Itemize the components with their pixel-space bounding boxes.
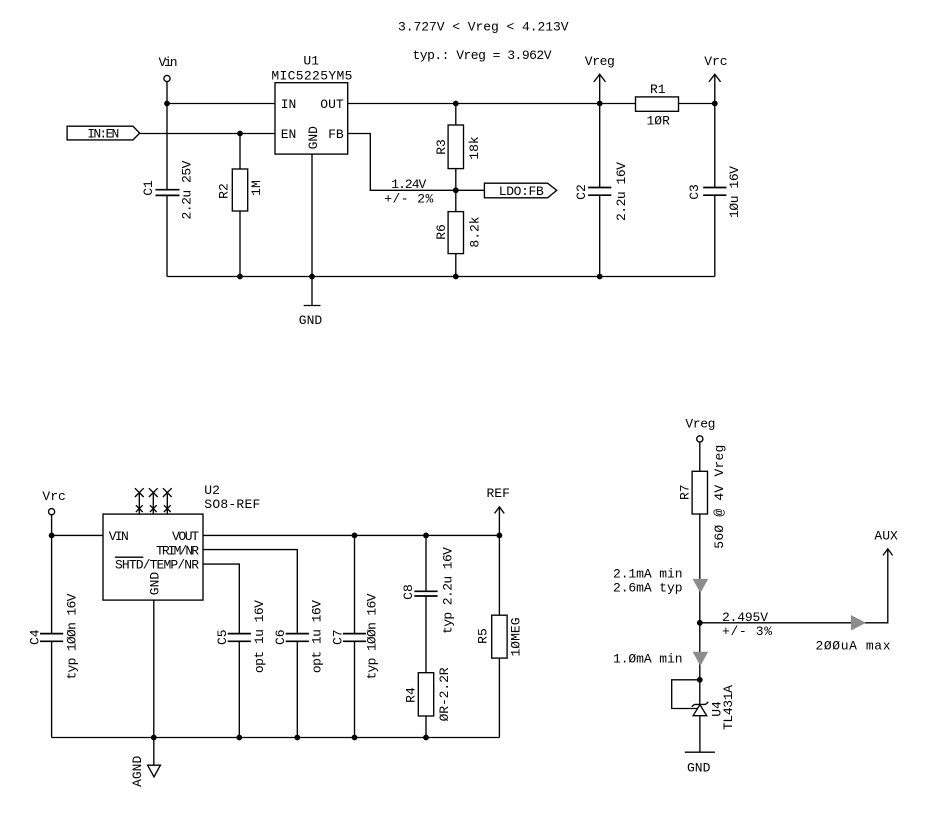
svg-text:Vin: Vin xyxy=(159,55,178,70)
svg-text:VOUT: VOUT xyxy=(172,529,199,544)
capacitor C7 xyxy=(330,593,379,679)
junction Vrc/C3 xyxy=(712,101,718,107)
svg-text:2.6mA typ: 2.6mA typ xyxy=(613,581,683,596)
svg-text:2.2u 25V: 2.2u 25V xyxy=(180,160,195,219)
op-amp U1 MIC5225YM5 xyxy=(271,53,352,154)
svg-text:R3: R3 xyxy=(434,139,449,155)
wire ground rail top section xyxy=(167,276,715,278)
svg-text:1.ØmA min: 1.ØmA min xyxy=(613,652,683,667)
svg-text:GND: GND xyxy=(687,761,711,776)
svg-text:U2: U2 xyxy=(204,483,220,498)
svg-text:opt 1u 16V: opt 1u 16V xyxy=(252,600,267,673)
svg-text:VIN: VIN xyxy=(109,529,129,544)
wire Vrc down to C4 xyxy=(51,535,53,633)
wire C6 to rail xyxy=(296,641,298,737)
svg-text:SO8-REF: SO8-REF xyxy=(204,497,260,512)
svg-text:18k: 18k xyxy=(467,136,482,160)
svg-text:56Ø @ 4V Vreg: 56Ø @ 4V Vreg xyxy=(712,445,727,549)
wire FB to divider xyxy=(348,134,456,191)
wire R3 top xyxy=(455,104,457,126)
current arrow right xyxy=(851,615,866,630)
wire C5 to rail xyxy=(238,641,240,737)
junction Vin node xyxy=(164,101,170,107)
svg-text:TRIM/NR: TRIM/NR xyxy=(156,543,199,558)
svg-text:C5: C5 xyxy=(215,629,230,645)
resistor R2 xyxy=(217,169,265,211)
wire VOUT net xyxy=(203,534,499,536)
svg-text:C7: C7 xyxy=(330,629,345,645)
node Vrc arrow xyxy=(704,54,727,104)
wire TL431 anode to GND xyxy=(699,716,701,753)
svg-text:LDO:FB: LDO:FB xyxy=(499,184,544,199)
wire C2 to rail xyxy=(599,195,601,276)
wire R7 to node xyxy=(699,514,701,623)
svg-text:C3: C3 xyxy=(687,184,702,200)
svg-text:IN: IN xyxy=(281,97,297,112)
svg-text:typ 1ØØn 16V: typ 1ØØn 16V xyxy=(65,593,80,679)
node AUX arrow xyxy=(874,528,898,555)
wire TL431 feedback loop xyxy=(672,680,700,709)
svg-text:8.2k: 8.2k xyxy=(467,216,482,247)
wire Vreg stem xyxy=(699,442,701,471)
wire R4 to rail xyxy=(425,716,427,738)
svg-text:OUT: OUT xyxy=(320,97,344,112)
wire C1 to rail xyxy=(166,195,168,276)
svg-text:R2: R2 xyxy=(217,183,232,199)
wire C3 to rail xyxy=(714,195,716,276)
junction OUT/R3 xyxy=(453,101,459,107)
svg-text:REF: REF xyxy=(487,486,510,501)
wire U2 GND stem xyxy=(153,600,155,737)
junction VOUT/C8 xyxy=(423,533,429,539)
junction FB node xyxy=(453,187,459,193)
wire Vreg down to C2 xyxy=(599,104,601,188)
wire SHTD to C5 xyxy=(203,564,239,634)
junction R6 rail xyxy=(453,274,459,280)
junction VOUT/R5 xyxy=(497,533,503,539)
svg-text:2ØØuA max: 2ØØuA max xyxy=(816,639,891,654)
junction TL431 ref xyxy=(697,677,703,683)
svg-text:ØR-2.2R: ØR-2.2R xyxy=(437,667,452,721)
junction R4 rail xyxy=(423,735,429,741)
svg-text:C1: C1 xyxy=(141,180,156,196)
svg-text:Vreg: Vreg xyxy=(685,416,715,431)
junction Vrc/VIN xyxy=(49,533,55,539)
junction VOUT/C7 xyxy=(352,533,358,539)
wire R6 bottom xyxy=(455,254,457,277)
svg-text:Vrc: Vrc xyxy=(42,489,65,504)
node Vin terminal xyxy=(164,75,170,81)
wire Vin down to C1 xyxy=(166,104,168,190)
op-amp U2 SO8-REF xyxy=(103,483,260,600)
current arrow down 2 xyxy=(693,652,709,666)
tag IN:EN xyxy=(67,126,140,141)
svg-text:1ØMEG: 1ØMEG xyxy=(509,617,524,656)
svg-text:C6: C6 xyxy=(273,629,288,645)
svg-text:1ØR: 1ØR xyxy=(646,114,670,129)
wire R2 bottom xyxy=(239,211,241,277)
svg-text:AUX: AUX xyxy=(874,528,898,543)
wire TRIM/NR to C6 xyxy=(203,550,297,634)
wire R5 top xyxy=(498,535,500,615)
capacitor C4 xyxy=(28,593,80,679)
svg-text:R1: R1 xyxy=(650,82,666,97)
svg-text:R4: R4 xyxy=(403,687,418,703)
svg-text:Vreg: Vreg xyxy=(585,54,615,69)
svg-text:TL431A: TL431A xyxy=(721,685,736,730)
junction C6 rail xyxy=(294,735,300,741)
resistor R4 xyxy=(403,667,452,721)
junction R2 rail xyxy=(237,274,243,280)
capacitor C8 xyxy=(401,547,456,634)
junction C5 rail xyxy=(236,735,242,741)
wire OUT net xyxy=(348,103,715,105)
svg-text:1M: 1M xyxy=(249,180,264,196)
svg-text:2.1mA min: 2.1mA min xyxy=(613,567,683,582)
svg-text:C4: C4 xyxy=(28,629,43,645)
node Vrc terminal xyxy=(49,509,55,515)
node Vreg arrow xyxy=(585,54,615,104)
svg-text:Vrc: Vrc xyxy=(704,54,727,69)
svg-text:EN: EN xyxy=(281,127,297,142)
junction U1 GND at rail xyxy=(309,274,315,280)
svg-text:GND: GND xyxy=(147,572,162,596)
svg-text:C2: C2 xyxy=(574,184,589,200)
wire C8 top xyxy=(425,535,427,591)
svg-text:R5: R5 xyxy=(475,628,490,644)
wire R2 top xyxy=(239,134,241,170)
wire VIN xyxy=(52,534,103,536)
svg-text:GND: GND xyxy=(306,126,321,150)
capacitor C1 xyxy=(141,160,194,219)
wire Vin stem xyxy=(166,82,168,104)
tag LDO:FB xyxy=(456,183,557,199)
svg-text:1Øu 16V: 1Øu 16V xyxy=(727,166,742,218)
capacitor C5 xyxy=(215,600,267,673)
svg-text:C8: C8 xyxy=(401,584,416,600)
svg-text:R6: R6 xyxy=(434,224,449,240)
wire Vrc down to C3 xyxy=(714,104,716,188)
svg-text:2.2u 16V: 2.2u 16V xyxy=(614,162,629,221)
capacitor C6 xyxy=(273,600,324,673)
resistor R7 xyxy=(678,445,727,549)
wire Vin to U1 IN xyxy=(167,103,275,105)
wire R3 bottom xyxy=(455,169,457,191)
junction EN/R2 xyxy=(237,131,243,137)
svg-text:typ 2.2u 16V: typ 2.2u 16V xyxy=(441,547,456,634)
wire R6 top xyxy=(455,190,457,211)
svg-text:1.24V: 1.24V xyxy=(391,177,426,192)
svg-text:SHTD/TEMP/NR: SHTD/TEMP/NR xyxy=(115,558,199,573)
wire node to AUX xyxy=(700,549,888,623)
svg-text:R7: R7 xyxy=(678,484,693,500)
svg-text:+/- 2%: +/- 2% xyxy=(384,192,433,207)
svg-text:U1: U1 xyxy=(303,53,319,68)
svg-text:FB: FB xyxy=(328,127,344,142)
junction C7 rail xyxy=(352,735,358,741)
ground AGND symbol xyxy=(130,738,161,787)
svg-text:GND: GND xyxy=(299,313,323,328)
resistor R1 xyxy=(636,82,679,128)
transistor U4 TL431A xyxy=(692,685,736,730)
ground GND bar xyxy=(685,752,715,775)
capacitor C2 xyxy=(574,162,629,221)
junction 2.495V node xyxy=(697,620,703,626)
wire C8 to R4 xyxy=(425,596,427,673)
node REF arrow xyxy=(487,486,510,535)
wire C4 to rail xyxy=(51,641,53,737)
wire C7 top xyxy=(354,535,356,633)
nc pin stubs with X xyxy=(135,488,172,514)
wire C7 to rail xyxy=(354,641,356,737)
wire IN:EN to U1 EN xyxy=(140,133,275,135)
svg-text:IN:EN: IN:EN xyxy=(87,127,119,142)
svg-text:typ 1ØØn 16V: typ 1ØØn 16V xyxy=(365,593,380,679)
svg-text:typ.: Vreg = 3.962V: typ.: Vreg = 3.962V xyxy=(413,48,552,63)
wire node down to TL431 xyxy=(699,623,701,705)
svg-text:+/- 3%: +/- 3% xyxy=(722,624,772,639)
capacitor C3 xyxy=(687,166,742,218)
resistor R6 xyxy=(434,212,482,254)
resistor R5 xyxy=(475,615,523,658)
node Vreg terminal xyxy=(697,436,703,442)
svg-text:3.727V < Vreg < 4.213V: 3.727V < Vreg < 4.213V xyxy=(398,19,569,34)
junction C2 rail xyxy=(597,274,603,280)
svg-text:MIC5225YM5: MIC5225YM5 xyxy=(271,69,352,84)
junction OUT/Vreg xyxy=(597,101,603,107)
wire R5 to rail xyxy=(498,658,500,737)
resistor R3 xyxy=(434,125,482,169)
current arrow down 1 xyxy=(693,579,709,593)
ground GND symbol xyxy=(299,277,323,329)
wire Vrc stem xyxy=(51,515,53,536)
wire U1 GND stem xyxy=(311,154,313,276)
wire ground rail bottom-left xyxy=(52,737,500,739)
svg-text:opt 1u 16V: opt 1u 16V xyxy=(309,600,324,673)
junction AGND rail xyxy=(151,735,157,741)
svg-text:AGND: AGND xyxy=(130,756,145,787)
